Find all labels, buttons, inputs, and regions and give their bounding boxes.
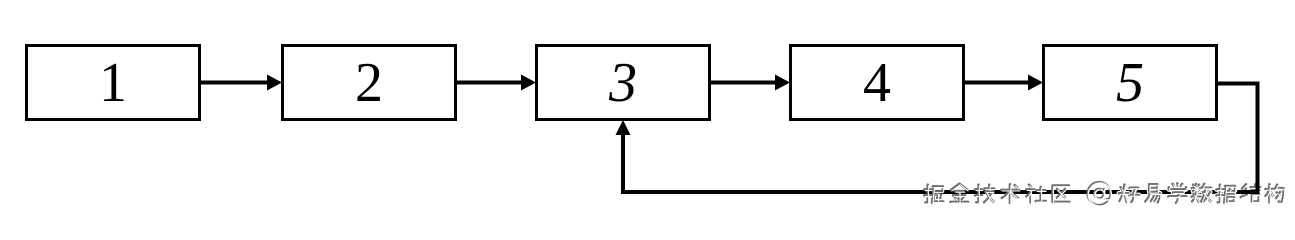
- svg-text:1: 1: [99, 52, 127, 114]
- svg-text:4: 4: [863, 52, 891, 114]
- svg-text:3: 3: [608, 52, 637, 114]
- svg-text:5: 5: [1116, 52, 1144, 114]
- svg-text:2: 2: [355, 52, 383, 114]
